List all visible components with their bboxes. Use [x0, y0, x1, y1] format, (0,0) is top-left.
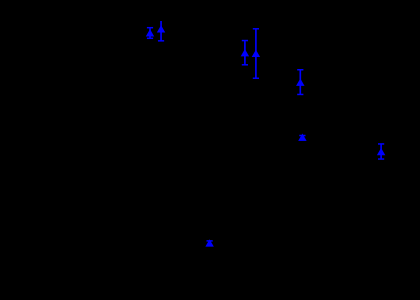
- point 6 marker: [299, 134, 306, 140]
- point 4 marker: [252, 51, 259, 57]
- point 5 errorbar: [297, 70, 303, 95]
- point 1 errorbar: [147, 28, 153, 39]
- point 8 marker: [206, 240, 213, 246]
- point 7 marker: [378, 149, 385, 155]
- point 2 errorbar: [158, 21, 164, 41]
- point 6 errorbar: [299, 136, 305, 140]
- point 3 errorbar: [242, 41, 248, 65]
- point 1 marker: [147, 30, 154, 36]
- point 4 errorbar: [253, 29, 259, 78]
- point 5 marker: [297, 79, 304, 85]
- point 7 errorbar: [378, 144, 384, 159]
- point 8 errorbar: [207, 241, 213, 246]
- point 2 marker: [158, 26, 165, 32]
- point 3 marker: [241, 50, 248, 56]
